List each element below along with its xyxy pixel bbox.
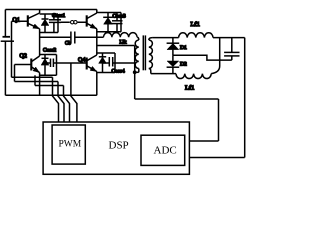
diode Q2 antiparallel [41, 55, 49, 76]
capacitor Coss3 [112, 13, 123, 32]
diode D2 [167, 55, 180, 73]
wire output right edge (Vo sense) [244, 38, 246, 158]
svg-text:Lf1: Lf1 [191, 21, 200, 28]
wire Q2 base [15, 64, 32, 66]
wire left leg upper [39, 10, 41, 14]
wire secondary top to output (top wire) [152, 37, 178, 39]
wire dot to primary bottom terminal [135, 71, 139, 73]
transformer T primary winding [135, 40, 139, 68]
svg-text:Coss2: Coss2 [43, 48, 56, 54]
wire node A to Cb [40, 36, 71, 38]
diode D1 [167, 38, 180, 56]
wire Q3 gate stub [34, 75, 36, 85]
svg-text:PWM: PWM [59, 140, 82, 150]
wire Q2 gate feed [15, 81, 59, 83]
box DSP controller [43, 122, 189, 174]
wire secondary bottom terminal [149, 69, 151, 74]
wire Q3 cell right edge [120, 13, 122, 32]
wire battery bottom lead [4, 41, 6, 95]
wire Q4 cell right edge [114, 53, 116, 73]
node junction dot at primary bottom [133, 70, 137, 74]
svg-text:Coss3: Coss3 [113, 14, 126, 20]
wire primary feedback into DSP [189, 140, 218, 142]
wire top rail [5, 9, 97, 11]
wire Q1 gate vertical [11, 21, 13, 77]
wire primary bottom vertical branch [134, 46, 136, 100]
svg-text:Q2: Q2 [20, 54, 27, 60]
wire Q2 gate vertical [14, 65, 16, 82]
wire Q2 cell right edge [56, 55, 58, 76]
svg-text:ADC: ADC [154, 145, 177, 157]
wire Q1 base [12, 20, 28, 22]
wire secondary top terminal [149, 38, 153, 40]
wire Q4 gate line [53, 62, 86, 64]
wire Q4 cell top [97, 52, 115, 54]
wire Q1 cell right edge [57, 14, 59, 33]
wire secondary bottom rail [151, 73, 176, 75]
wire Lf1 bottom riser to output top [211, 38, 220, 74]
wire right leg lower (Q4 emitter to bottom rail) [96, 72, 98, 96]
wire node B to primary bottom [97, 45, 135, 47]
wire battery top lead [4, 10, 6, 37]
svg-text:D2: D2 [180, 62, 187, 68]
wire Q3 gate line [61, 21, 87, 23]
svg-text:Lf1: Lf1 [185, 85, 194, 92]
inductor Lf1 bottom [176, 74, 211, 79]
svg-text:D1: D1 [180, 45, 187, 51]
diode Q3 antiparallel [103, 13, 113, 32]
wire Q1 gate drop [53, 77, 59, 122]
wire Cb to Llk [75, 36, 104, 38]
wire right leg upper [96, 10, 98, 14]
wire Q1 cell top [40, 13, 58, 15]
wire Coss4 to primary bottom branch [113, 62, 135, 64]
coil crossover on Q3 gate line [71, 21, 74, 24]
inductor Lf1 top [179, 33, 213, 38]
transformer T core [143, 35, 145, 70]
diode Q4 antiparallel [99, 53, 107, 73]
wire output top [213, 37, 245, 39]
transistor Q4 [87, 55, 97, 72]
capacitor Coss1 [49, 14, 61, 33]
transistor Q1 [28, 13, 40, 29]
wire Q1 gate feed [12, 76, 53, 78]
wire left leg mid (Q1 emitter to Q2 collector through node A) [39, 29, 41, 56]
svg-text:DSP: DSP [109, 140, 129, 152]
wire Q2 cell top [40, 54, 57, 56]
transformer T secondary winding [149, 40, 153, 68]
battery Vin [1, 37, 14, 41]
wire Llk to transformer primary top [137, 37, 139, 40]
inductor Llk [104, 33, 138, 38]
wire right leg mid (Q3 emitter to Q4 collector through node B) [96, 29, 98, 55]
wire left leg lower (Q2 emitter to bottom rail) [39, 73, 41, 96]
wire Q3 gate feed [35, 85, 64, 87]
transistor Q2 [31, 56, 39, 73]
wire Q3 cell top [97, 12, 121, 14]
wire Q3 gate drop [64, 86, 70, 123]
wire primary feedback horizontal [135, 98, 219, 100]
capacitor Coss2 [45, 59, 53, 68]
wire D1-D2 common anode [173, 55, 232, 60]
wire primary feedback vertical [218, 99, 220, 141]
wire bottom rail [5, 94, 96, 96]
wire Q1 cell bottom [40, 32, 58, 34]
svg-text:Coss4: Coss4 [112, 68, 125, 74]
box PWM module [52, 125, 85, 164]
wire Q3 cell bottom [97, 31, 121, 33]
capacitor Cout [224, 38, 239, 61]
diode Q1 antiparallel [41, 14, 49, 33]
capacitor Coss4 [103, 57, 113, 67]
wire Vo sense into DSP [189, 157, 244, 159]
transistor Q3 [87, 13, 97, 29]
wire Q2 cell bottom [40, 74, 57, 76]
wire primary bottom terminal [138, 69, 140, 73]
svg-text:Cb: Cb [65, 42, 71, 47]
svg-text:Q1: Q1 [13, 18, 20, 24]
wire Q4 cell bottom [97, 72, 115, 74]
box ADC module [141, 135, 185, 165]
capacitor Cb [71, 32, 75, 44]
svg-text:Q4: Q4 [78, 58, 85, 64]
wire Q2 gate drop [58, 82, 64, 123]
wire Q4 gate drop [71, 63, 77, 122]
